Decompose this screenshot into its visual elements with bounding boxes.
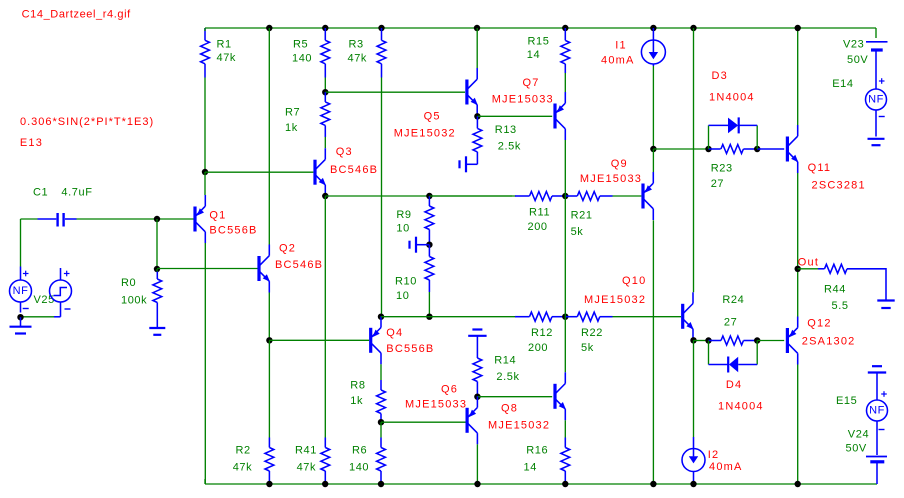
node D3/R23 left	[705, 146, 711, 152]
svg-text:C1: C1	[33, 187, 48, 199]
svg-text:R23: R23	[711, 163, 733, 175]
svg-text:Q8: Q8	[501, 403, 518, 415]
node R8/R6 junction	[378, 419, 384, 425]
node source ground junction	[17, 314, 23, 320]
node input after C1	[154, 216, 160, 222]
svg-text:I1: I1	[615, 40, 627, 52]
svg-text:5.5: 5.5	[832, 300, 849, 312]
svg-text:Q12: Q12	[807, 318, 831, 330]
svg-text:E13: E13	[20, 137, 43, 149]
wire Q10 collector	[693, 28, 695, 292]
svg-text:R12: R12	[531, 327, 553, 339]
resistor R15 14	[564, 28, 566, 40]
transistor Q11 2SC3281	[786, 137, 789, 162]
node top rail R15	[562, 25, 568, 31]
svg-text:4.7uF: 4.7uF	[61, 187, 92, 199]
svg-text:Q6: Q6	[441, 384, 458, 396]
transistor Q1 BC556B	[193, 207, 196, 232]
node Q3 emitter	[322, 193, 328, 199]
node top rail R5	[322, 25, 328, 31]
svg-text:R16: R16	[526, 445, 548, 457]
svg-text:BC556B: BC556B	[386, 343, 434, 355]
resistor R24 27	[709, 340, 722, 342]
wire row2 left	[381, 316, 516, 318]
node row1 mid (Q7 emitter)	[562, 193, 568, 199]
svg-text:MJE15032: MJE15032	[394, 128, 456, 140]
wire Q4 base	[269, 339, 369, 341]
resistor R22 5k	[565, 316, 577, 318]
wire R7 to Q3 collector	[324, 137, 326, 148]
svg-text:200: 200	[528, 342, 548, 354]
node R9/R10 midpoint	[426, 242, 432, 248]
svg-text:C14_Dartzeel_r4.gif: C14_Dartzeel_r4.gif	[22, 9, 132, 21]
wire R22 to Q10 base	[613, 316, 682, 318]
resistor R8 1k	[380, 380, 382, 390]
wire input vertical	[156, 219, 158, 269]
node Q1 emitter / Q3 base	[202, 169, 208, 175]
transistor Q10 MJE15032	[681, 304, 684, 329]
resistor R6 140	[380, 422, 382, 437]
wire Q6 base	[381, 421, 466, 423]
svg-text:V24: V24	[848, 429, 869, 441]
resistor R41 47k	[324, 438, 326, 448]
current source I1 40mA	[652, 28, 654, 52]
resistor R10 10	[428, 245, 430, 257]
node Q9 bottom rail	[650, 481, 656, 487]
svg-text:MJE15032: MJE15032	[584, 294, 646, 306]
node D4/R24 right	[754, 337, 760, 343]
node R6 bottom rail	[378, 481, 384, 487]
svg-text:47k: 47k	[348, 53, 368, 65]
svg-text:40mA: 40mA	[601, 54, 635, 66]
source E13 sine/step (right circle)	[60, 268, 62, 280]
wire I1 node to D3 node	[653, 148, 708, 150]
node D4/R24 left	[705, 337, 711, 343]
svg-text:R0: R0	[121, 277, 136, 289]
svg-text:1N4004: 1N4004	[718, 401, 764, 413]
svg-text:R24: R24	[722, 294, 744, 306]
svg-text:R21: R21	[571, 210, 593, 222]
svg-text:Out: Out	[798, 257, 819, 269]
resistor R44 5.5	[818, 268, 825, 270]
wire Q9 emitter	[652, 149, 654, 172]
node Out	[795, 266, 801, 272]
wire V25 source top	[20, 219, 22, 267]
svg-text:V23: V23	[843, 39, 864, 51]
svg-text:Q4: Q4	[386, 327, 403, 339]
wire R3 down to Q4 emitter	[381, 78, 383, 317]
svg-text:2SC3281: 2SC3281	[812, 180, 866, 192]
node R41 bottom rail	[322, 481, 328, 487]
svg-text:MJE15033: MJE15033	[580, 173, 642, 185]
resistor R3 47k	[381, 28, 383, 40]
svg-text:100k: 100k	[121, 295, 147, 307]
ground R0	[149, 327, 165, 329]
ground R44	[877, 299, 894, 301]
ground V25	[20, 317, 22, 326]
diode D3 1N4004	[708, 125, 710, 149]
svg-text:R44: R44	[824, 284, 846, 296]
ground E14	[868, 138, 885, 140]
svg-text:47k: 47k	[233, 462, 253, 474]
svg-text:D3: D3	[712, 70, 728, 82]
source E14 NF	[879, 80, 885, 82]
node R5/R7 junction	[322, 89, 328, 95]
node Q5 emitter / R13 top	[474, 113, 480, 119]
svg-text:27: 27	[711, 178, 724, 190]
node top rail Q2 collector	[266, 25, 272, 31]
node R2 bottom rail	[266, 481, 272, 487]
source E15 NF	[876, 373, 878, 401]
wire Q7 collector down	[564, 140, 566, 196]
svg-text:1N4004: 1N4004	[709, 92, 755, 104]
transistor Q7 MJE15033	[553, 104, 556, 129]
wire node to Q1	[204, 172, 206, 195]
wire R15 to Q7 emitter	[564, 73, 566, 92]
resistor R14 2.5k	[476, 336, 478, 358]
wire R21 to Q9 base	[613, 195, 642, 197]
svg-text:R8: R8	[350, 380, 365, 392]
svg-text:NF: NF	[869, 405, 885, 417]
svg-text:0.306*SIN(2*PI*T*1E3): 0.306*SIN(2*PI*T*1E3)	[20, 116, 154, 128]
wire Q11 collector to rail	[797, 28, 799, 125]
wire -50V bottom rail	[205, 483, 877, 485]
diode D4 1N4004	[708, 341, 710, 365]
wire Q10 emitter to D4 node	[694, 340, 709, 342]
wire input node horizontal	[21, 218, 38, 220]
ground R14 (up facing)	[468, 335, 486, 337]
node R16 bottom rail	[562, 481, 568, 487]
svg-text:I2: I2	[708, 449, 720, 461]
transistor Q5 MJE15032	[465, 80, 468, 105]
svg-text:R7: R7	[285, 107, 300, 119]
transistor Q2 BC546B	[257, 256, 260, 281]
node Q12 bottom rail	[795, 481, 801, 487]
svg-text:R3: R3	[349, 39, 364, 51]
svg-text:Q7: Q7	[523, 77, 540, 89]
wire I1 to node	[652, 66, 654, 149]
wire source bottom to ground node	[21, 316, 55, 318]
svg-text:1k: 1k	[350, 395, 363, 407]
svg-text:NF: NF	[868, 94, 884, 106]
svg-text:Q9: Q9	[611, 158, 628, 170]
resistor R11 200	[515, 195, 530, 197]
svg-text:BC546B: BC546B	[275, 259, 323, 271]
svg-text:5k: 5k	[571, 226, 584, 238]
svg-text:Q3: Q3	[336, 146, 353, 158]
wire Q3 base	[205, 171, 313, 173]
wire Q9 collector to bottom rail	[652, 220, 654, 484]
svg-text:R6: R6	[352, 445, 367, 457]
svg-text:MJE15032: MJE15032	[488, 420, 550, 432]
svg-text:R15: R15	[528, 35, 550, 47]
svg-text:R9: R9	[396, 209, 411, 221]
wire Q2 emitter down	[268, 293, 270, 341]
svg-text:50V: 50V	[847, 54, 868, 66]
resistor R13 2.5k	[476, 116, 478, 128]
ground R13 (left facing)	[466, 163, 477, 165]
svg-text:14: 14	[527, 49, 540, 61]
node Q2 emitter junction	[266, 337, 272, 343]
svg-text:47k: 47k	[217, 52, 237, 64]
node Q11 top rail	[795, 25, 801, 31]
wire Q4 collector to R8	[380, 364, 382, 380]
svg-text:140: 140	[292, 53, 312, 65]
svg-text:5k: 5k	[581, 342, 594, 354]
resistor R1 47k	[204, 28, 206, 40]
node R10 bottom	[426, 314, 432, 320]
wire Q2 collector	[268, 28, 270, 245]
wire +50V top rail	[205, 27, 876, 29]
wire to Q11 base	[757, 148, 784, 150]
node Q6 bottom rail	[474, 481, 480, 487]
node R9 top	[426, 193, 432, 199]
wire Q1 collector to bottom rail	[204, 243, 206, 484]
svg-text:R13: R13	[495, 124, 517, 136]
svg-text:R1: R1	[217, 39, 232, 51]
svg-text:14: 14	[524, 462, 537, 474]
transistor Q4 BC556B	[369, 328, 372, 353]
svg-text:Q1: Q1	[209, 210, 226, 222]
svg-text:2.5k: 2.5k	[498, 141, 521, 153]
svg-text:2.5k: 2.5k	[496, 371, 519, 383]
current source I2 40mA	[693, 437, 695, 456]
wire Q2 base	[157, 268, 258, 270]
svg-text:140: 140	[349, 462, 369, 474]
wire Q12 emitter to Out	[797, 269, 799, 317]
svg-text:D4: D4	[726, 379, 742, 391]
wire top rail to V23	[875, 28, 877, 38]
resistor R23 27	[709, 148, 721, 150]
svg-text:27: 27	[724, 317, 737, 329]
svg-text:E15: E15	[836, 395, 857, 407]
transistor Q6 MJE15033	[466, 408, 469, 433]
source V25 NF (left circle)	[20, 267, 22, 281]
wire Q5 base	[325, 91, 465, 93]
svg-text:Q10: Q10	[622, 275, 646, 287]
svg-text:47k: 47k	[297, 462, 317, 474]
svg-text:E14: E14	[832, 78, 853, 90]
node top rail Q5 collector	[474, 25, 480, 31]
battery V23 50V	[866, 41, 888, 43]
node I1 / Q9 emitter / R23 left	[650, 146, 656, 152]
wire Q5 collector	[476, 28, 478, 68]
wire row1 to row2 on x565	[564, 196, 566, 317]
wire down to R2	[268, 340, 270, 437]
node top rail R3	[378, 25, 384, 31]
wire to Q12 base	[757, 340, 784, 342]
svg-text:1k: 1k	[285, 122, 298, 134]
resistor R12 200	[515, 316, 530, 318]
node I2 bottom rail	[690, 481, 696, 487]
wire Q10 emitter to I2	[693, 340, 695, 437]
wire Q8 base	[477, 396, 552, 398]
battery V24 50V	[866, 456, 887, 458]
resistor R5 140	[324, 28, 326, 40]
svg-text:R11: R11	[529, 207, 550, 219]
resistor R21 5k	[565, 195, 577, 197]
wire Q12 collector to rail	[797, 365, 799, 485]
wire row2 to Q8 collector	[564, 317, 566, 373]
resistor R7 1k	[324, 92, 326, 102]
svg-text:200: 200	[528, 221, 548, 233]
svg-text:R14: R14	[494, 355, 516, 367]
svg-text:R2: R2	[236, 445, 251, 457]
wire Out to R44	[798, 268, 818, 270]
wire Q8 emitter to R16	[564, 420, 566, 437]
node top rail Q10 collector	[690, 25, 696, 31]
ground E15 (up facing)	[868, 371, 886, 373]
svg-text:Q2: Q2	[279, 243, 296, 255]
resistor R0 100k	[156, 269, 158, 272]
svg-text:MJE15033: MJE15033	[492, 94, 554, 106]
resistor R2 47k	[268, 438, 270, 448]
resistor R16 14	[564, 438, 566, 448]
svg-text:BC546B: BC546B	[330, 164, 378, 176]
resistor R9 10	[428, 196, 430, 206]
svg-text:Q5: Q5	[424, 111, 441, 123]
wire R1 to node	[204, 78, 206, 173]
node R14 bottom / Q6 collector	[474, 394, 480, 400]
transistor Q3 BC546B	[313, 160, 316, 185]
svg-text:R41: R41	[295, 445, 317, 457]
svg-text:V25: V25	[34, 294, 55, 306]
svg-text:2SA1302: 2SA1302	[802, 336, 856, 348]
svg-text:Q11: Q11	[808, 162, 832, 174]
capacitor C1	[38, 218, 57, 220]
svg-text:50V: 50V	[846, 443, 867, 455]
svg-text:10: 10	[396, 290, 409, 302]
transistor Q8 MJE15032	[553, 384, 556, 409]
svg-text:R10: R10	[395, 276, 417, 288]
transistor Q12 2SA1302	[786, 328, 789, 353]
wire Q11 emitter to Out	[797, 173, 799, 269]
node D3/R23 right	[754, 146, 760, 152]
svg-text:R22: R22	[581, 327, 603, 339]
svg-text:40mA: 40mA	[709, 461, 743, 473]
ground R9/R10 mid (left facing)	[417, 244, 430, 246]
wire Q6 emitter to rail	[476, 444, 478, 484]
node Q10 emitter junction	[690, 337, 696, 343]
svg-text:10: 10	[396, 223, 409, 235]
transistor Q9 MJE15033	[641, 184, 644, 209]
svg-text:NF: NF	[13, 285, 29, 297]
wire Q7 base	[477, 115, 552, 117]
wire row1 left	[429, 195, 516, 197]
node R0 top	[154, 266, 160, 272]
svg-text:BC556B: BC556B	[209, 225, 257, 237]
svg-text:R5: R5	[293, 39, 308, 51]
node row2 mid (Q8 collector)	[562, 314, 568, 320]
node top rail I1	[650, 25, 656, 31]
wire Q3 emitter row	[325, 195, 512, 197]
node Q4 emitter / row2 start	[378, 314, 384, 320]
wire Q3 emitter down to R41	[324, 196, 326, 437]
svg-text:MJE15033: MJE15033	[405, 399, 467, 411]
